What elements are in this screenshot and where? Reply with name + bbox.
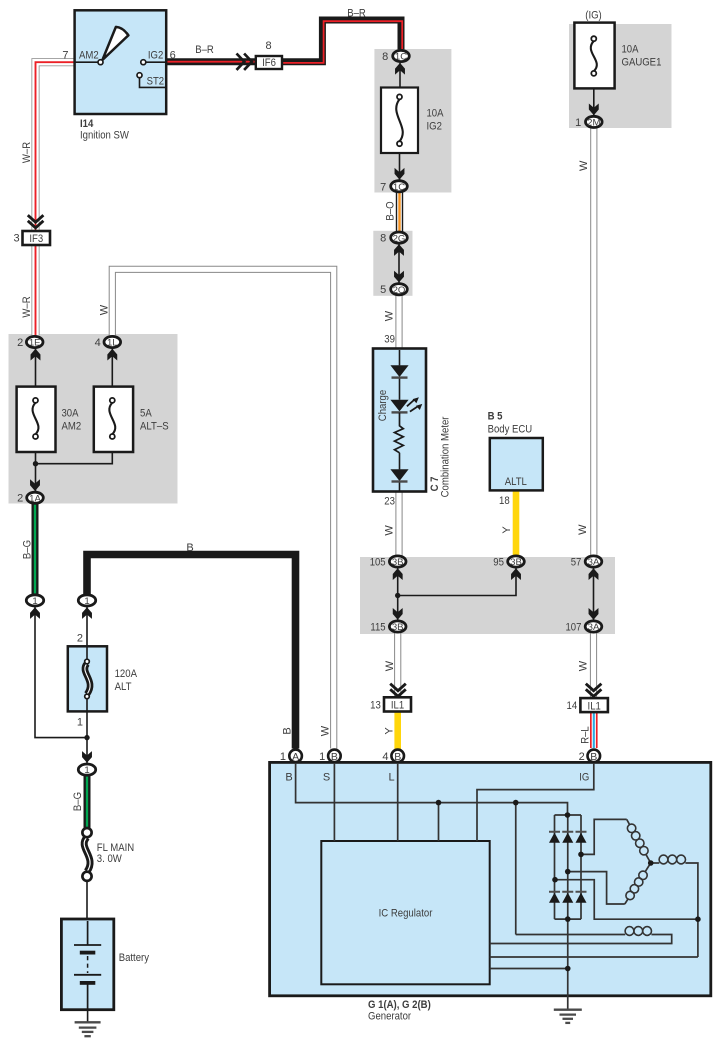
svg-text:W–R: W–R [21,296,33,317]
svg-text:39: 39 [384,333,395,345]
svg-text:IF6: IF6 [262,57,276,69]
arrow into 1 connector below ALT fuse [82,751,92,763]
connector ellipse 1 left [26,595,43,606]
connector ellipse 1C pin8 [26,50,602,775]
generator terminal B(L) [391,750,404,763]
wire Y from IL1 pin 13 to generator L terminal [394,711,401,749]
thin wire 1C8 to IG2 fuse [399,63,401,88]
generator G1/G2 box [270,762,711,995]
switch contact IG2 wire [146,61,166,63]
svg-text:107: 107 [566,622,582,634]
connector ellipse 3A57 [585,556,602,567]
stator coil loops phase2 [626,891,634,899]
wire phase2 tap to stator [568,872,625,904]
svg-text:3A: 3A [588,622,600,633]
svg-text:1: 1 [319,751,325,763]
connector ellipse 2G [391,232,408,243]
svg-text:W: W [320,725,332,736]
svg-text:ALT: ALT [115,681,132,693]
wire W from 2M pin 1 to 3A pin 57 [590,128,597,556]
wire W from meter pin 23 to connector 3B pin 105 [395,491,402,556]
svg-text:1: 1 [280,751,286,763]
svg-text:Combination Meter: Combination Meter [439,416,451,497]
svg-text:IG2: IG2 [148,50,163,62]
wire phase1 tap to stator [581,819,627,854]
svg-text:6: 6 [170,50,176,62]
connector ellipse 1A [27,492,44,503]
thin wire 1E to AM2 fuse [35,349,37,388]
switch lever I14 [102,27,128,60]
ground below battery [75,1022,101,1036]
arrow into 3A57 [589,568,599,580]
GENERATOR INTERNALS [296,764,698,1010]
svg-text:W: W [383,310,395,321]
switch contact ST2 wire [140,78,167,88]
wire regulator pin to phase3 [490,956,698,958]
connector ellipse 1E [26,336,43,347]
svg-text:5: 5 [380,284,386,296]
svg-text:W: W [98,304,110,315]
ground below generator [554,1010,582,1023]
battery box [61,919,113,1010]
rectifier column 2 [567,815,569,919]
svg-text:3B: 3B [392,622,404,633]
body ECU box [490,438,543,490]
arrow into 1 connector above ALT fuse [82,607,92,619]
arrow into 2O [394,271,404,283]
wire B-R from IF6 to connector 1C pin 8 [282,20,402,63]
svg-text:R–L: R–L [579,726,591,744]
svg-text:2: 2 [17,493,23,505]
gray bar 3B/3A [360,557,615,634]
LED charge lamp in meter [390,400,408,412]
arrow into 1A [30,479,40,491]
thin wire ALT fuse to 1 connector [86,711,88,763]
thin wire IG2 fuse to 1C7 [399,153,401,180]
svg-text:3: 3 [13,233,19,245]
fuse element 30A AM2 [33,403,39,435]
arrow into 3B115 [393,608,403,620]
thin wire 1 connector to ALT fuse [86,607,88,647]
resistor in meter [395,413,404,453]
svg-text:4: 4 [95,337,101,349]
connector ellipse 3A107 [585,621,602,632]
svg-text:2O: 2O [393,285,406,296]
arrow into 3B95 [511,568,521,580]
thin wire battery to ground [87,1009,89,1023]
gray block left junction box [9,334,178,504]
rectifier top rail [555,814,582,816]
svg-text:IF3: IF3 [29,233,43,245]
svg-text:S: S [323,771,330,783]
stator coil phase2 diagonal [625,898,629,904]
wire B-O from 1C pin 7 to 2G pin 8 [396,192,403,232]
rectifier diodes lower row [549,892,587,903]
svg-text:B: B [281,727,293,734]
connector ellipse 2O [391,284,408,295]
svg-text:I14: I14 [80,118,94,130]
wire W from 3A pin 107 to IL1 pin 14 [590,633,597,699]
svg-text:3A: 3A [588,557,600,568]
switch contact ST2 [137,73,142,78]
svg-text:3B: 3B [510,557,522,568]
svg-text:Generator: Generator [368,1011,411,1023]
fuse 10A GAUGE1 box [574,23,614,89]
svg-text:120A: 120A [115,668,138,680]
fuse element 10A GAUGE1 [591,41,597,71]
svg-text:B–O: B–O [385,201,397,221]
rectifier column 1 [554,815,556,919]
harness arrow IF6 [237,54,252,70]
connector ellipse 3B105 [389,556,406,567]
switch contact AM2 wire [75,61,99,63]
harness arrow above IL1 pin13 [390,684,406,697]
svg-text:B: B [285,771,292,783]
svg-text:B–G: B–G [22,540,34,559]
thin wire 2G to 2O [398,244,400,283]
connector IL1 pin14 [580,698,608,712]
svg-text:IG2: IG2 [427,121,442,133]
svg-text:B: B [331,751,338,763]
svg-text:IC Regulator: IC Regulator [379,908,433,920]
svg-text:7: 7 [380,181,386,193]
wire B thick from connector 1 to generator B terminal [87,555,296,749]
wire R-L from IL1 pin 14 to generator IG terminal [590,712,598,749]
connector ellipse 2M [586,116,603,127]
connector IL1 pin13 [384,697,411,711]
svg-text:G 1(A), G 2(B): G 1(A), G 2(B) [368,999,431,1011]
svg-text:3. 0W: 3. 0W [97,853,123,865]
rectifier diodes upper row [549,832,587,843]
fuse 120A ALT box [68,646,107,711]
wire L terminal to regulator [397,764,399,841]
node junction 3B [395,593,400,598]
IC regulator box [321,841,489,984]
svg-text:W: W [578,160,590,171]
rectifier bottom rail [555,918,582,920]
svg-text:1: 1 [77,717,83,729]
wire IG terminal to regulator [477,764,594,841]
svg-text:ALTL: ALTL [505,476,527,488]
wire W from connector 1L to generator S terminal [112,269,333,748]
gray block 2G-2O [373,231,412,296]
junction block J/B (IG2 fuse) [9,24,672,634]
harness arrow IF3 [28,215,44,228]
svg-text:1: 1 [84,596,89,607]
junction dots in generator [436,800,442,806]
connector ellipse 1C pin7 [391,181,408,192]
svg-text:2: 2 [77,633,83,645]
rotor coil loops [625,927,634,936]
fuse element 10A IG2 [396,99,403,141]
diode D2 in meter [390,469,408,481]
svg-text:1: 1 [575,117,581,129]
gray block GAUGE1 [569,24,672,128]
svg-text:A: A [292,751,299,763]
fuse 10A IG2 box [381,88,418,154]
svg-text:Body ECU: Body ECU [488,424,533,436]
svg-text:ST2: ST2 [147,76,165,88]
svg-text:2G: 2G [393,233,406,244]
svg-text:1: 1 [32,596,37,607]
arrow into left 1 connector [30,607,40,619]
svg-text:Y: Y [384,727,396,735]
connector ellipse 1 above ALT fuse [78,595,95,606]
arrow into 3A107 [589,608,599,620]
wire B-G from connector 1 to FL MAIN [84,776,91,829]
fusible link element 120A ALT [86,647,88,711]
svg-text:115: 115 [370,622,385,634]
switch contact IG2 [141,60,146,65]
svg-text:8: 8 [265,40,271,52]
wire B-G from connector 1A to fusible link 1 [32,504,39,595]
svg-text:B: B [186,542,193,554]
svg-text:30A: 30A [62,408,80,420]
svg-text:B: B [590,751,597,763]
svg-text:4: 4 [382,751,388,763]
svg-text:L: L [389,771,395,783]
arrow into 1C pin7 [395,168,405,180]
wire ground line [567,919,569,1010]
LED arrows [407,400,414,406]
wire phase3 tap to neutral line [555,880,698,920]
svg-text:2M: 2M [587,118,600,129]
svg-text:23: 23 [384,495,395,507]
svg-text:14: 14 [567,700,578,712]
connector ellipse 3B115 [389,621,406,632]
svg-text:13: 13 [370,699,381,711]
fuse 30A AM2 box [17,387,56,452]
svg-text:95: 95 [493,557,504,569]
fuse 5A ALT-S box [94,387,133,452]
svg-text:8: 8 [380,233,386,245]
thin wire 1L to ALT-S fuse [111,349,113,388]
svg-text:7: 7 [62,50,68,62]
wire W from 3B pin 115 to IL1 pin 13 [394,633,401,698]
svg-text:B 5: B 5 [488,411,503,423]
svg-text:10A: 10A [427,108,445,120]
svg-text:B–R: B–R [195,44,214,56]
generator terminal A [289,750,302,763]
svg-text:1A: 1A [29,494,41,505]
svg-text:10A: 10A [622,44,640,56]
svg-text:ALT–S: ALT–S [140,421,169,433]
generator terminal B(IG) [588,750,601,763]
combination meter charge lamp box [373,349,426,492]
svg-text:IG: IG [579,771,589,783]
ignition switch I14 box [75,10,167,114]
svg-text:W: W [577,524,589,535]
svg-text:B: B [394,751,401,763]
svg-text:IL1: IL1 [588,701,601,713]
svg-text:Ignition SW: Ignition SW [80,130,129,142]
arrow into 1C pin8 [395,63,405,75]
svg-text:W–R: W–R [21,142,33,163]
svg-text:1L: 1L [107,338,118,349]
arrow into 1E [31,349,41,361]
svg-text:2: 2 [579,751,585,763]
wire bus tap to regulator [438,803,440,841]
thin wire junction to 3B95 [398,568,516,596]
svg-text:IL1: IL1 [391,700,404,712]
fusible link element FL MAIN [84,837,90,871]
svg-text:3B: 3B [392,557,404,568]
stator coil phase3 horizontal [651,862,660,864]
switch contact AM2 [98,60,103,65]
svg-text:8: 8 [382,51,388,63]
thin wire ALT-S fuse to junction [36,452,113,464]
generator terminal B(S) [328,750,341,763]
connector ellipse 1L [104,336,121,347]
node junction below ALT fuse [84,735,89,740]
thin wire 3B105 to 3B115 [397,568,399,620]
connector IF6 [256,56,282,69]
thin wire AM2 fuse to junction to 1A [35,452,37,492]
rotor coil line [516,934,625,936]
svg-text:W: W [578,660,590,671]
svg-text:1E: 1E [29,338,41,349]
svg-text:Battery: Battery [119,952,150,964]
connector IF3 [23,231,51,245]
thin wire 3A57 to 3A107 [593,568,595,620]
stator coil loops phase1 [625,824,685,935]
svg-text:1: 1 [84,765,89,776]
wire S terminal to regulator [333,764,335,841]
svg-text:57: 57 [571,557,582,569]
svg-text:Charge: Charge [377,390,389,421]
wire Y from Body ECU ALTL pin 18 to 3B pin 95 [513,490,520,556]
svg-text:1C: 1C [393,182,405,193]
svg-text:AM2: AM2 [62,421,82,433]
thin wire GAUGE1 fuse to 2M [593,75,595,116]
arrow into 1L [107,349,117,361]
svg-text:18: 18 [499,495,510,507]
thin wire FL MAIN to battery [86,881,88,921]
fuse element 5A ALT-S [109,403,115,435]
battery plates [87,921,89,945]
connector ellipse 3B95 [508,556,525,567]
wire bus tap to rotor coil [515,803,517,935]
svg-text:B–G: B–G [72,792,84,811]
svg-text:2: 2 [17,337,23,349]
svg-text:Y: Y [501,526,513,534]
svg-text:B–R: B–R [347,8,366,20]
rectifier column 3 [580,815,582,919]
svg-text:105: 105 [370,557,386,569]
wire W-R from ignition SW AM2 pin 7 to IF3 to connector 1E [36,62,75,335]
svg-text:GAUGE1: GAUGE1 [622,57,662,69]
arrow into 2M [589,104,599,116]
wire B-R from ignition SW IG2 pin 6 to IF6 [166,58,256,65]
arrow into 3B105 [393,568,403,580]
svg-text:5A: 5A [140,408,152,420]
svg-text:(IG): (IG) [585,10,602,22]
charge lamp internal wire [399,350,401,491]
arrow into 2G [394,244,404,256]
harness arrow above IL1 pin14 [586,684,602,697]
wire W from 2O pin 5 to combination meter pin 39 [395,295,402,349]
wire B terminal to bus [296,764,568,815]
node junction below AM2 fuse [33,461,38,466]
svg-text:AM2: AM2 [79,50,99,62]
svg-text:1C: 1C [395,52,407,63]
svg-text:W: W [383,525,395,536]
thin wire left 1 connector to junction below ALT fuse [35,607,87,738]
stator coil phase1 diagonal [627,819,630,825]
stator coil loops phase3 [659,855,668,864]
svg-text:W: W [384,660,396,671]
wire regulator pin to ground line [490,968,568,970]
diode D1 in meter [390,365,408,377]
connector ellipse 1 below ALT fuse [78,764,95,775]
